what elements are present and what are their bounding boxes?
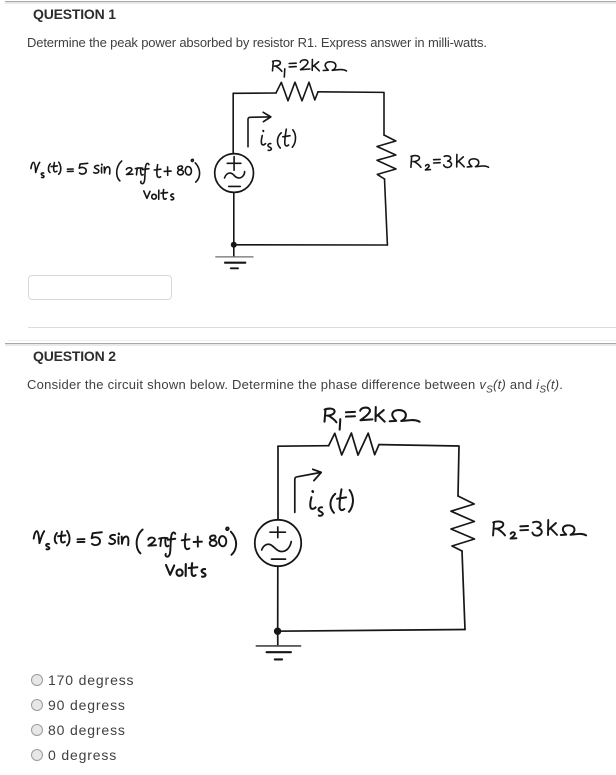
wire: Q2 right vertical down xyxy=(462,551,465,630)
wire: Q1 top left segment xyxy=(233,92,276,94)
label R1 = 2k ohm (Q1) xyxy=(273,59,347,77)
ground (Q1) xyxy=(216,257,253,268)
current arrow i_s (Q1) xyxy=(248,117,270,147)
source U1 (Q1) sine symbol xyxy=(225,172,245,178)
label i_s(t) (Q1) xyxy=(261,129,295,150)
source U2 (Q2) plus sign xyxy=(270,527,285,538)
wire: Q2 left vertical (source to top-left corner) xyxy=(277,446,279,519)
question 2 panel top border xyxy=(8,340,616,341)
wire: Q1 source bottom stub xyxy=(233,192,235,245)
source U1 (Q1) plus sign xyxy=(227,157,241,171)
ground (Q2) xyxy=(256,645,300,647)
resistor R1 (Q1) zigzag xyxy=(276,82,318,101)
wire: Q2 top left segment xyxy=(278,445,329,448)
label v_s(t)=5sin(2 pi f t + 80 deg) (Q1) xyxy=(31,159,200,183)
wire: Q2 bottom xyxy=(278,630,466,632)
wire: Q2 top right segment xyxy=(379,445,459,496)
resistor R1 (Q2) zigzag xyxy=(329,433,379,455)
label R2 = 3k ohm (Q2) xyxy=(493,520,586,539)
label i_s(t) (Q2) xyxy=(310,489,353,515)
wire: Q1 bottom xyxy=(234,244,388,246)
radio options xyxy=(31,674,43,686)
wire: Q2 source bottom stub xyxy=(277,566,279,631)
source U2 (Q2) sine symbol xyxy=(262,542,292,552)
wire: Q1 top right segment xyxy=(318,92,384,135)
label Volts (Q2) xyxy=(166,563,206,577)
wire: Q1 right vertical down xyxy=(385,179,388,245)
hr between content and next question xyxy=(28,327,616,328)
label R2 = 3k ohm (Q1) xyxy=(411,154,489,170)
wire: Q2 ground stub xyxy=(277,631,279,645)
question 1 panel top border xyxy=(5,1,616,2)
source U2 (Q2) minus sign xyxy=(272,558,286,560)
resistor R2 (Q1) zigzag xyxy=(377,135,396,179)
label R1 = 2k ohm (Q2) xyxy=(325,407,420,430)
source U1 (Q1) circle xyxy=(215,154,254,193)
answer input box xyxy=(28,275,172,300)
label Volts (Q1) xyxy=(144,190,174,200)
wire: Q1 left vertical (source to top-left corner) xyxy=(232,93,234,154)
label v_s(t)=... (Q2) xyxy=(34,528,236,557)
node: Q2 ground junction xyxy=(274,628,281,635)
wire: Q1 ground stub xyxy=(233,245,235,256)
node: Q1 ground junction xyxy=(231,242,237,248)
current arrow i_s (Q2) xyxy=(295,473,321,513)
source U2 (Q2) circle xyxy=(255,520,301,566)
source U1 (Q1) minus sign xyxy=(229,185,241,187)
resistor R2 (Q2) zigzag xyxy=(451,496,475,551)
